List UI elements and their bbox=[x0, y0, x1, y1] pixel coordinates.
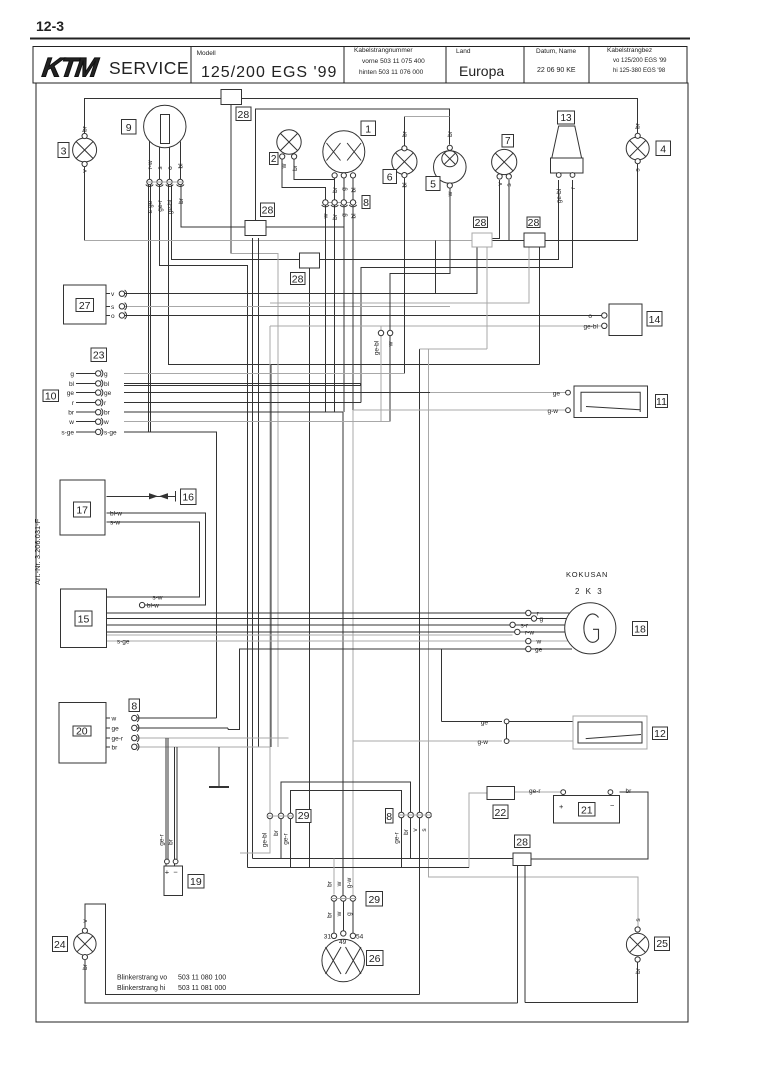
svg-text:28: 28 bbox=[238, 109, 250, 121]
svg-text:s-w: s-w bbox=[152, 594, 162, 601]
svg-text:o: o bbox=[588, 313, 592, 320]
svg-text:26: 26 bbox=[369, 953, 381, 965]
svg-text:g: g bbox=[104, 371, 108, 378]
svg-text:br: br bbox=[332, 186, 339, 193]
svg-text:49: 49 bbox=[339, 939, 347, 946]
svg-text:Land: Land bbox=[456, 48, 471, 55]
svg-text:s: s bbox=[157, 166, 164, 170]
svg-text:28: 28 bbox=[475, 217, 487, 229]
svg-text:ge-bl: ge-bl bbox=[167, 199, 174, 214]
svg-text:v: v bbox=[111, 291, 115, 298]
svg-text:w: w bbox=[336, 911, 343, 917]
svg-text:br: br bbox=[447, 130, 454, 137]
svg-text:br: br bbox=[273, 829, 280, 836]
svg-text:br: br bbox=[635, 122, 642, 129]
svg-text:16: 16 bbox=[182, 492, 194, 504]
svg-text:v: v bbox=[497, 182, 504, 186]
svg-text:13: 13 bbox=[560, 113, 572, 124]
svg-text:ge: ge bbox=[104, 390, 112, 397]
svg-text:31: 31 bbox=[324, 933, 332, 940]
svg-text:o: o bbox=[167, 166, 174, 170]
svg-text:28: 28 bbox=[292, 274, 304, 286]
svg-text:br: br bbox=[82, 125, 89, 132]
svg-text:ge-r: ge-r bbox=[112, 736, 124, 743]
svg-text:ge-r: ge-r bbox=[529, 788, 541, 795]
svg-text:br: br bbox=[402, 130, 409, 137]
svg-text:Blinkerstrang vo: Blinkerstrang vo bbox=[117, 975, 167, 982]
svg-text:g-w: g-w bbox=[346, 877, 353, 888]
svg-text:4: 4 bbox=[660, 144, 666, 156]
svg-text:6: 6 bbox=[387, 172, 393, 184]
svg-text:17: 17 bbox=[76, 505, 88, 517]
svg-text:g-w: g-w bbox=[478, 739, 489, 746]
svg-text:vo 125/200 EGS '99: vo 125/200 EGS '99 bbox=[613, 58, 667, 64]
svg-text:br: br bbox=[327, 880, 334, 887]
svg-text:1: 1 bbox=[365, 124, 371, 136]
svg-text:24: 24 bbox=[54, 939, 66, 951]
svg-text:bl: bl bbox=[350, 213, 357, 219]
svg-text:br: br bbox=[327, 911, 334, 918]
svg-text:22 06 90 KE: 22 06 90 KE bbox=[537, 67, 576, 74]
svg-text:br: br bbox=[635, 967, 642, 974]
svg-text:21: 21 bbox=[581, 805, 593, 817]
svg-text:ge: ge bbox=[535, 647, 543, 654]
svg-text:o: o bbox=[111, 313, 115, 320]
svg-text:3: 3 bbox=[61, 145, 67, 157]
svg-text:8: 8 bbox=[386, 811, 392, 823]
svg-text:KTM: KTM bbox=[40, 52, 101, 83]
svg-text:18: 18 bbox=[634, 624, 646, 636]
svg-text:w: w bbox=[387, 341, 394, 347]
svg-text:r-w: r-w bbox=[525, 629, 534, 636]
svg-text:br: br bbox=[104, 410, 111, 417]
svg-text:25: 25 bbox=[656, 938, 668, 950]
svg-text:s: s bbox=[421, 828, 428, 832]
svg-text:10: 10 bbox=[45, 391, 57, 403]
svg-text:bl: bl bbox=[69, 381, 75, 388]
svg-text:s-ge: s-ge bbox=[117, 639, 130, 646]
svg-text:br: br bbox=[168, 838, 175, 845]
svg-text:29: 29 bbox=[298, 810, 310, 822]
svg-text:bl: bl bbox=[178, 163, 185, 169]
svg-text:SERVICE: SERVICE bbox=[109, 58, 189, 78]
svg-text:br: br bbox=[178, 197, 185, 204]
svg-text:ge-r: ge-r bbox=[394, 831, 401, 843]
svg-text:KOKUSAN: KOKUSAN bbox=[566, 570, 608, 579]
svg-text:g: g bbox=[341, 187, 348, 191]
svg-text:54: 54 bbox=[356, 933, 364, 940]
svg-text:5: 5 bbox=[430, 179, 436, 191]
svg-text:g-w: g-w bbox=[548, 408, 559, 415]
svg-text:−: − bbox=[610, 801, 615, 810]
svg-text:ge-bl: ge-bl bbox=[262, 832, 269, 847]
svg-text:ge-bl: ge-bl bbox=[374, 340, 381, 355]
svg-text:bl: bl bbox=[104, 381, 110, 388]
svg-text:hinten 503 11 076 000: hinten 503 11 076 000 bbox=[359, 69, 424, 76]
svg-text:28: 28 bbox=[528, 217, 540, 229]
svg-text:22: 22 bbox=[495, 807, 507, 819]
svg-text:ge: ge bbox=[112, 725, 120, 732]
svg-text:g: g bbox=[346, 912, 353, 916]
svg-text:Kabelstrangnummer: Kabelstrangnummer bbox=[354, 47, 413, 54]
svg-text:125/200 EGS '99: 125/200 EGS '99 bbox=[201, 64, 337, 81]
svg-text:s-ge: s-ge bbox=[104, 429, 117, 436]
svg-text:ge-r: ge-r bbox=[282, 832, 289, 844]
svg-text:2: 2 bbox=[271, 154, 277, 165]
svg-text:ge: ge bbox=[553, 391, 561, 398]
svg-text:8: 8 bbox=[131, 700, 137, 712]
svg-text:Blinkerstrang hi: Blinkerstrang hi bbox=[117, 985, 166, 992]
svg-text:br: br bbox=[292, 164, 299, 171]
svg-text:w: w bbox=[447, 191, 454, 197]
svg-text:ge-bl: ge-bl bbox=[556, 188, 563, 203]
svg-text:7: 7 bbox=[505, 136, 511, 147]
svg-text:br: br bbox=[82, 963, 89, 970]
svg-text:br: br bbox=[332, 213, 339, 220]
svg-text:Datum, Name: Datum, Name bbox=[536, 48, 576, 55]
svg-text:23: 23 bbox=[93, 350, 105, 362]
svg-text:s-w: s-w bbox=[110, 519, 120, 526]
svg-text:2 K 3: 2 K 3 bbox=[575, 587, 604, 596]
svg-text:r-w: r-w bbox=[147, 160, 154, 169]
svg-text:ge-bl: ge-bl bbox=[584, 323, 599, 330]
svg-text:29: 29 bbox=[368, 894, 380, 906]
svg-text:Europa: Europa bbox=[459, 63, 504, 79]
svg-text:bl-w: bl-w bbox=[110, 511, 122, 518]
svg-text:r: r bbox=[72, 400, 75, 407]
svg-text:+: + bbox=[559, 802, 564, 811]
svg-text:hi 125-380 EGS '98: hi 125-380 EGS '98 bbox=[613, 68, 666, 74]
svg-text:503 11 080 100: 503 11 080 100 bbox=[178, 975, 226, 982]
svg-text:15: 15 bbox=[78, 614, 90, 626]
svg-text:vorne 503 11 075 400: vorne 503 11 075 400 bbox=[362, 58, 425, 65]
svg-text:Kabelstrangbez: Kabelstrangbez bbox=[607, 47, 652, 54]
svg-text:g: g bbox=[341, 213, 348, 217]
svg-text:14: 14 bbox=[649, 314, 661, 326]
svg-text:bl: bl bbox=[402, 182, 409, 188]
svg-text:r: r bbox=[570, 186, 577, 189]
svg-text:w: w bbox=[336, 881, 343, 887]
svg-text:+: + bbox=[165, 868, 170, 877]
svg-text:g: g bbox=[540, 616, 544, 623]
svg-text:r: r bbox=[104, 400, 107, 407]
svg-text:v: v bbox=[82, 919, 89, 923]
svg-text:w: w bbox=[323, 213, 330, 219]
svg-text:19: 19 bbox=[190, 876, 202, 888]
svg-text:bl: bl bbox=[350, 187, 357, 193]
svg-text:Art.-Nr. 3.206.031-F: Art.-Nr. 3.206.031-F bbox=[33, 518, 42, 585]
svg-text:ge: ge bbox=[481, 719, 489, 726]
svg-text:w: w bbox=[103, 419, 109, 426]
svg-text:br: br bbox=[68, 410, 75, 417]
svg-text:w: w bbox=[281, 163, 288, 169]
svg-text:8: 8 bbox=[363, 197, 369, 209]
svg-text:s-ge: s-ge bbox=[61, 429, 74, 436]
svg-text:20: 20 bbox=[76, 725, 88, 737]
svg-text:w: w bbox=[111, 716, 117, 723]
svg-text:br: br bbox=[626, 788, 633, 795]
svg-text:v: v bbox=[412, 828, 419, 832]
svg-text:w: w bbox=[536, 639, 542, 646]
svg-text:w: w bbox=[68, 419, 74, 426]
svg-text:503 11 081 000: 503 11 081 000 bbox=[178, 985, 226, 992]
svg-text:11: 11 bbox=[656, 396, 667, 408]
svg-text:9: 9 bbox=[126, 122, 132, 134]
svg-text:br: br bbox=[112, 744, 119, 751]
svg-text:27: 27 bbox=[79, 300, 91, 312]
svg-text:s: s bbox=[506, 183, 513, 187]
svg-text:s: s bbox=[111, 304, 115, 311]
svg-text:br: br bbox=[403, 828, 410, 835]
svg-text:s-r: s-r bbox=[521, 622, 529, 629]
svg-text:12-3: 12-3 bbox=[36, 18, 64, 34]
svg-text:Modell: Modell bbox=[197, 50, 217, 57]
svg-text:bl-w: bl-w bbox=[147, 603, 159, 610]
svg-text:12: 12 bbox=[654, 728, 666, 740]
svg-text:28: 28 bbox=[262, 205, 274, 217]
svg-text:ge-r: ge-r bbox=[157, 199, 164, 211]
svg-text:28: 28 bbox=[516, 836, 528, 848]
svg-text:−: − bbox=[173, 868, 178, 877]
svg-text:g: g bbox=[70, 371, 74, 378]
svg-text:s-ge: s-ge bbox=[147, 200, 154, 213]
svg-text:ge: ge bbox=[67, 390, 75, 397]
svg-text:ge-r: ge-r bbox=[158, 833, 165, 845]
